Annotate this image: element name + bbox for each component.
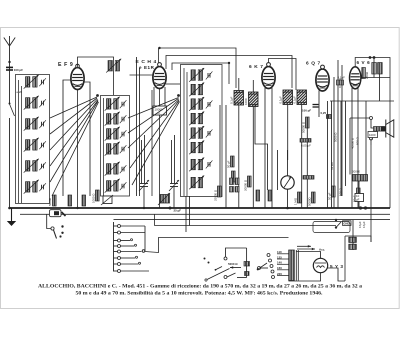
choke primary b bbox=[378, 63, 383, 75]
transformer L7 bbox=[106, 59, 121, 73]
trimmer C14 bbox=[206, 100, 213, 108]
contact 8 bbox=[118, 270, 121, 273]
wire can d bbox=[301, 105, 303, 209]
terminal PU 1 bbox=[224, 257, 227, 260]
wire ECH4 pins bbox=[153, 87, 155, 106]
wire v366 bbox=[365, 101, 367, 175]
svg-text:0,25: 0,25 bbox=[321, 111, 327, 115]
wire PU vertical bbox=[246, 248, 248, 278]
svg-text:100 Ω: 100 Ω bbox=[339, 187, 343, 196]
ground symbol bbox=[7, 208, 16, 226]
switch antenna bbox=[9, 103, 11, 105]
trimmer C7 bbox=[120, 100, 127, 108]
transformer L21 bbox=[189, 176, 204, 190]
wire mixer grid bbox=[130, 74, 153, 76]
svg-text:100 pF: 100 pF bbox=[14, 68, 23, 72]
tube 6Q7 bbox=[316, 69, 329, 91]
transformer L17 bbox=[189, 112, 204, 126]
capacitor 0.1uF c bbox=[283, 90, 293, 105]
resistor R9 bbox=[268, 190, 272, 201]
wire v277 bbox=[277, 150, 279, 190]
output transformer bbox=[374, 127, 385, 132]
wire plate 6V6 bbox=[361, 77, 390, 79]
node a bbox=[369, 56, 372, 59]
resistor R8 bbox=[256, 190, 260, 201]
switch mains small bbox=[216, 267, 222, 270]
trimmer C2 bbox=[39, 99, 46, 107]
wire v345 bbox=[345, 101, 347, 186]
resistor R2 bbox=[68, 195, 72, 206]
svg-text:62 kΩ: 62 kΩ bbox=[330, 162, 334, 170]
resistor R7 bbox=[303, 176, 314, 180]
svg-text:25000 Ω: 25000 Ω bbox=[214, 189, 218, 201]
svg-text:50000 Ω: 50000 Ω bbox=[302, 121, 306, 133]
trimmer C15 bbox=[206, 129, 213, 137]
svg-text:0,1μF: 0,1μF bbox=[230, 96, 234, 104]
terminal out 2 bbox=[370, 137, 373, 140]
svg-text:25 μF: 25 μF bbox=[174, 209, 182, 213]
svg-text:0,1μF: 0,1μF bbox=[338, 76, 346, 80]
wire osc grid bbox=[166, 83, 180, 85]
wire speaker left bbox=[371, 120, 374, 129]
terminal mains bbox=[258, 267, 261, 270]
svg-text:20000: 20000 bbox=[352, 170, 360, 174]
trimmer C8 bbox=[120, 115, 127, 123]
transformer L9 bbox=[105, 112, 120, 126]
capacitor 0.1uF d bbox=[297, 90, 307, 105]
svg-text:GND: GND bbox=[343, 222, 349, 226]
capacitor PU bbox=[245, 272, 250, 276]
wire gang1 bbox=[141, 140, 143, 184]
tube 6K7 bbox=[262, 67, 275, 89]
transformer L11 bbox=[105, 142, 120, 156]
svg-text:5000 Ω: 5000 Ω bbox=[334, 132, 338, 142]
capacitor pair a bbox=[230, 178, 234, 185]
wire 6V6 top bbox=[355, 58, 390, 98]
capacitor 100pF b bbox=[313, 105, 319, 108]
capacitor pair b bbox=[235, 178, 239, 185]
capacitor 16uF a bbox=[349, 237, 357, 242]
tap 140 bbox=[277, 263, 289, 265]
trimmer C12 bbox=[120, 182, 127, 190]
transformer L19 bbox=[189, 141, 204, 155]
transformer L18 bbox=[189, 126, 204, 140]
wire 6Q7 down bbox=[318, 91, 320, 118]
transformer L6 bbox=[24, 180, 39, 194]
node 25uF bbox=[169, 207, 172, 210]
svg-text:1000 Ω: 1000 Ω bbox=[92, 193, 96, 203]
svg-text:e 20: e 20 bbox=[17, 90, 23, 94]
node bus dots bbox=[359, 206, 362, 209]
svg-text:0,05 μF: 0,05 μF bbox=[301, 144, 311, 148]
svg-text:160: 160 bbox=[277, 266, 282, 270]
resistor R6 bbox=[232, 171, 236, 182]
coil box B outline bbox=[101, 96, 130, 197]
resistor 50000 bbox=[306, 117, 310, 128]
power transformer primary bbox=[289, 250, 295, 281]
wire band selector fan bbox=[50, 97, 99, 196]
capacitor 50uF c bbox=[357, 188, 361, 199]
wire avc left bbox=[136, 57, 138, 196]
terminal PU 2 bbox=[224, 276, 227, 279]
trimmer C6 bbox=[39, 183, 46, 191]
wire HT bbox=[345, 236, 371, 242]
wire gang2 bbox=[171, 140, 173, 184]
wire 6V6 down bbox=[351, 88, 353, 208]
wire 6K7 top bbox=[269, 59, 297, 91]
terminal tap 2 bbox=[269, 259, 272, 262]
capacitor bus block bbox=[50, 210, 62, 217]
rectifier 5Y3 bbox=[313, 258, 327, 272]
resistor 25000 ohm bbox=[218, 186, 222, 197]
svg-text:110: 110 bbox=[277, 250, 282, 254]
wire EF9 cathode bbox=[77, 90, 79, 209]
transformer L20 bbox=[189, 158, 204, 172]
trimmer C11 bbox=[120, 165, 127, 173]
capacitor pair c bbox=[230, 187, 234, 193]
wire 5Y3 top bbox=[296, 252, 321, 259]
wire can b bbox=[252, 107, 254, 209]
svg-text:e E1R: e E1R bbox=[139, 65, 155, 70]
meter tuning indicator bbox=[281, 176, 294, 189]
wire EF9 screen bbox=[84, 82, 90, 196]
arrow heater 1 bbox=[297, 245, 311, 247]
terminal tap 4 bbox=[271, 270, 274, 273]
potentiometer volume bbox=[160, 195, 170, 204]
wire osc fan bbox=[128, 98, 180, 186]
contact 2 bbox=[118, 231, 121, 234]
ground bus main bbox=[10, 207, 391, 209]
transformer L12 bbox=[105, 162, 120, 176]
switch tone bbox=[207, 269, 230, 280]
terminal tap 5 bbox=[272, 276, 275, 279]
capacitor 100pF bbox=[6, 67, 13, 70]
transformer L5 bbox=[24, 159, 39, 173]
bus line 3 bbox=[114, 219, 391, 221]
svg-text:50000: 50000 bbox=[48, 198, 52, 206]
capacitor 50uF bbox=[231, 156, 235, 167]
transformer L1 bbox=[24, 75, 39, 89]
svg-text:40000 Ω: 40000 Ω bbox=[351, 137, 355, 149]
field coil 20000 bbox=[353, 175, 368, 182]
wire det b bbox=[189, 196, 191, 226]
svg-text:6 K 7: 6 K 7 bbox=[249, 64, 263, 70]
wire step bbox=[255, 105, 268, 190]
speaker bbox=[385, 120, 387, 138]
svg-text:6 V 6: 6 V 6 bbox=[357, 60, 371, 65]
contact 6 bbox=[118, 257, 121, 260]
transformer L15 bbox=[189, 83, 204, 97]
wire HT rail horizontal bbox=[330, 100, 394, 102]
wire feed bbox=[155, 214, 336, 225]
wire ECH4 cathode bbox=[159, 89, 161, 107]
capacitor pair d bbox=[235, 187, 239, 193]
svg-text:50 μF: 50 μF bbox=[227, 160, 231, 168]
svg-text:5000 Ω: 5000 Ω bbox=[228, 262, 238, 266]
svg-text:1 MΩ: 1 MΩ bbox=[294, 197, 298, 205]
wire EF9 top cap bbox=[78, 57, 114, 95]
wire antenna down-lead bbox=[9, 46, 11, 104]
svg-text:E F 9: E F 9 bbox=[58, 62, 73, 68]
wire 5Y3 bottom bbox=[289, 273, 321, 281]
svg-text:125: 125 bbox=[277, 255, 282, 259]
svg-text:500 Ω: 500 Ω bbox=[356, 136, 360, 145]
svg-text:Acc.: Acc. bbox=[319, 248, 325, 252]
transformer core bbox=[295, 250, 297, 281]
resistor 5000 bbox=[312, 192, 316, 203]
wire bottom-right verticals bbox=[344, 236, 346, 281]
wire v341 bbox=[340, 101, 342, 196]
svg-text:16μF: 16μF bbox=[362, 221, 366, 228]
resistor R1 bbox=[53, 195, 57, 206]
transformer L8 bbox=[105, 97, 120, 111]
wire v359 bbox=[358, 181, 360, 208]
wire contact rail bbox=[144, 226, 146, 251]
svg-text:140: 140 bbox=[277, 261, 282, 265]
trimmer C13 bbox=[206, 71, 213, 79]
arrow PU bbox=[230, 267, 241, 269]
transformer L13 bbox=[105, 179, 120, 193]
wire choke down bbox=[379, 74, 381, 101]
resistor 1000 b bbox=[249, 92, 259, 107]
svg-text:50 μF: 50 μF bbox=[328, 192, 332, 200]
terminal out 1 bbox=[370, 117, 373, 120]
resistor 20000 bbox=[248, 176, 252, 187]
tube EF9 bbox=[71, 68, 84, 90]
transformer L14 bbox=[189, 68, 204, 82]
capacitor gang 2 bbox=[170, 184, 178, 187]
contact 5 pivot bbox=[118, 250, 121, 253]
svg-text:0,1μF: 0,1μF bbox=[279, 96, 283, 104]
svg-text:100 pF: 100 pF bbox=[302, 109, 311, 113]
tube ECH4 bbox=[153, 67, 166, 89]
svg-text:5000Ω: 5000Ω bbox=[308, 197, 312, 206]
resistor cathode 6V6 bbox=[362, 68, 366, 79]
node osc fan pivot bbox=[177, 94, 180, 97]
switch PU bbox=[227, 273, 236, 277]
choke primary a bbox=[372, 63, 377, 75]
contact 3 bbox=[118, 239, 121, 242]
node top rail b bbox=[228, 62, 230, 64]
wire v327 bbox=[327, 101, 329, 208]
wire v331 bbox=[331, 101, 333, 208]
wire can c bbox=[287, 105, 289, 161]
trimmer C1 bbox=[39, 78, 46, 86]
contact 1 bbox=[118, 225, 121, 228]
transformer L4 bbox=[24, 138, 39, 152]
wire grid EF9 bbox=[63, 80, 71, 196]
capacitor 50uF b bbox=[332, 186, 336, 197]
contact 4 bbox=[118, 245, 121, 248]
svg-text:1000: 1000 bbox=[369, 133, 376, 137]
svg-text:50 m e da 49 a 70 m. Sensibili: 50 m e da 49 a 70 m. Sensibilità da 5 a … bbox=[76, 290, 324, 296]
node switch pivot bbox=[96, 94, 99, 97]
tap 220 bbox=[277, 275, 289, 277]
tap 110 bbox=[277, 253, 289, 255]
wire can a bbox=[238, 105, 240, 208]
junction box outline bbox=[313, 222, 350, 233]
coil box C outline bbox=[181, 65, 223, 197]
bus line 2 bbox=[20, 213, 390, 215]
capacitor 0.05uF bbox=[300, 139, 311, 143]
resistor 1M bbox=[298, 192, 302, 203]
node top rail a bbox=[158, 47, 160, 49]
switch GND bbox=[335, 219, 337, 221]
arrow heater 2 bbox=[297, 248, 315, 250]
capacitor 10uF right bbox=[355, 194, 364, 202]
transformer L10 bbox=[105, 127, 120, 141]
resistor box right bbox=[368, 132, 378, 138]
contact 7 bbox=[118, 263, 121, 266]
resistor R4 bbox=[96, 190, 100, 201]
wire v350 bbox=[349, 118, 351, 175]
wire meter bbox=[287, 189, 289, 208]
trimmer C16 bbox=[206, 160, 213, 168]
svg-text:0,1μF: 0,1μF bbox=[293, 96, 297, 104]
trimmer C10 bbox=[120, 145, 127, 153]
svg-text:μF: μF bbox=[356, 198, 360, 202]
transformer L2 bbox=[24, 96, 39, 110]
trimmer C3 bbox=[39, 120, 46, 128]
capacitor gang 1 bbox=[140, 184, 148, 187]
wire right rail bbox=[370, 145, 372, 242]
coil box A outline bbox=[16, 75, 50, 204]
trimmer C4 bbox=[39, 141, 46, 149]
resistor R3 bbox=[82, 195, 86, 206]
antenna bbox=[4, 36, 15, 46]
svg-text:1000: 1000 bbox=[244, 98, 248, 105]
wire 6K7 cathode bbox=[264, 88, 266, 208]
terminal tap 1 bbox=[267, 254, 270, 257]
switch voltage selector bbox=[257, 268, 259, 270]
resistor R5 volume bbox=[103, 196, 112, 204]
wire v220 bbox=[219, 105, 221, 186]
tap 160 bbox=[277, 269, 289, 271]
wire ECH4 pin down bbox=[151, 90, 153, 196]
node antenna junction bbox=[8, 61, 10, 63]
band switch rail bbox=[113, 222, 115, 272]
resistor 10000 ohm bbox=[153, 106, 167, 115]
wire anode loop inner bbox=[172, 63, 229, 84]
transformer L16 bbox=[189, 97, 204, 111]
svg-text:20000 Ω: 20000 Ω bbox=[244, 179, 248, 191]
wire speaker feed bbox=[350, 117, 370, 119]
wire pivot to mains bbox=[145, 238, 289, 253]
svg-text:ALLOCCHIO, BACCHINI e C. - Mod: ALLOCCHIO, BACCHINI e C. - Mod. 451 - Ga… bbox=[38, 283, 362, 289]
tube 6V6 bbox=[350, 67, 361, 89]
terminal tap 3 bbox=[270, 265, 273, 268]
wire 6Q7 bus verticals bbox=[333, 77, 335, 208]
trimmer C9 bbox=[120, 130, 127, 138]
trimmer C5 bbox=[39, 162, 46, 170]
tap 125 bbox=[277, 258, 289, 260]
wire v226 bbox=[225, 105, 227, 208]
svg-text:6 Q 7: 6 Q 7 bbox=[306, 61, 321, 67]
capacitor 16uF b bbox=[349, 244, 357, 249]
transformer L3 bbox=[24, 117, 39, 131]
wire det bbox=[185, 196, 187, 232]
capacitor 0.1uF a bbox=[234, 91, 244, 106]
wire anode loop outer bbox=[159, 48, 237, 88]
wire anode loop middle bbox=[166, 56, 292, 89]
svg-text:220: 220 bbox=[277, 272, 282, 276]
switch S2 bbox=[47, 214, 51, 228]
